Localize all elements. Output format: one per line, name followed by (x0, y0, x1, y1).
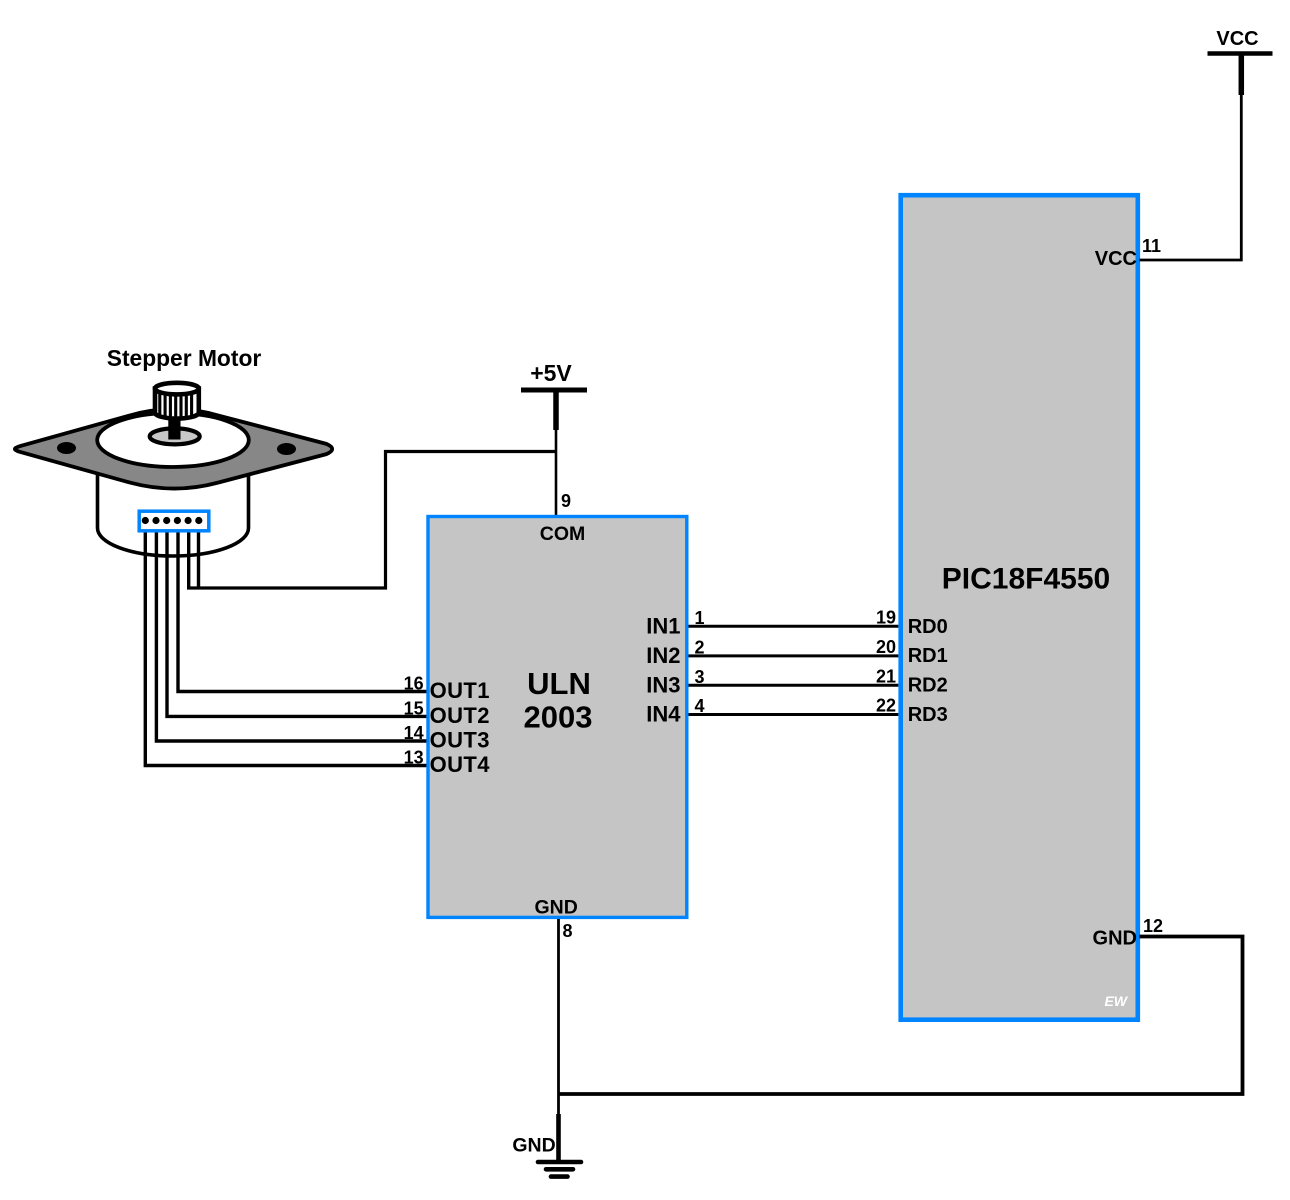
U1 pin label OUT3 (430, 728, 490, 753)
wire: motor pin5 stub (187, 521, 190, 588)
pin number 14 (404, 723, 424, 743)
svg-text:2003: 2003 (524, 700, 593, 735)
svg-text:GND: GND (512, 1134, 555, 1156)
motor hub (150, 428, 200, 444)
pin number 11 (1142, 236, 1161, 256)
svg-text:IN3: IN3 (646, 672, 680, 697)
U1 title ULN (527, 666, 591, 701)
U2 pin label RD2 (908, 675, 948, 697)
svg-text:OUT4: OUT4 (430, 752, 491, 777)
U2 pin label RD0 (908, 616, 948, 638)
wire: U1 IN2 to U2 RD1 (689, 654, 899, 657)
U1 pin label IN4 (646, 702, 681, 727)
svg-text:EW: EW (1104, 993, 1128, 1009)
svg-text:GND: GND (1093, 928, 1137, 950)
svg-text:8: 8 (563, 921, 573, 941)
wire: motor pin6 stub (197, 521, 200, 588)
U1 pin label OUT4 (430, 752, 491, 777)
wire: motor pin1 to ULN OUT4 (145, 521, 426, 766)
stepper motor M1 mounting flange (15, 409, 332, 488)
label: Stepper Motor (107, 345, 262, 371)
IC U1 ULN2003 box (428, 517, 687, 918)
connector pin dots (142, 517, 203, 524)
wire: motor pin4 to ULN OUT1 (178, 521, 427, 692)
svg-text:22: 22 (876, 696, 896, 716)
ground label GND (512, 1134, 555, 1156)
U2 pin label VCC (1095, 248, 1137, 270)
ground symbol (538, 1114, 581, 1177)
pin number 19 (876, 607, 896, 627)
svg-text:IN2: IN2 (646, 643, 680, 668)
svg-text:21: 21 (876, 666, 896, 686)
svg-text:ULN: ULN (527, 666, 591, 701)
pin number 15 (404, 698, 424, 718)
wire: VCC to U2 pin 11 (1140, 95, 1242, 260)
svg-text:19: 19 (876, 607, 896, 627)
power symbol VCC (1208, 28, 1273, 95)
U2 pin label RD1 (908, 645, 948, 667)
U1 pin label IN3 (646, 672, 680, 697)
U2 logo EW (1104, 993, 1128, 1009)
pin number 16 (404, 674, 424, 694)
svg-text:PIC18F4550: PIC18F4550 (942, 562, 1110, 595)
U2 title PIC18F4550 (942, 562, 1110, 595)
wire: U1 IN4 to U2 RD3 (689, 713, 899, 716)
svg-text:RD0: RD0 (908, 616, 948, 638)
wire: +5V to ULN COM pin 9 (555, 430, 558, 515)
svg-text:20: 20 (876, 637, 896, 657)
wire: U2 GND pin 12 return to ground (559, 937, 1243, 1095)
U1 pin label OUT1 (430, 678, 490, 703)
pin number 22 (876, 696, 896, 716)
svg-text:Stepper Motor: Stepper Motor (107, 345, 262, 371)
U2 pin label GND (1093, 928, 1137, 950)
svg-text:9: 9 (561, 491, 571, 511)
svg-text:OUT1: OUT1 (430, 678, 490, 703)
svg-text:OUT3: OUT3 (430, 728, 490, 753)
svg-text:16: 16 (404, 674, 424, 694)
pin number 20 (876, 637, 896, 657)
mounting hole left (57, 442, 76, 454)
stepper motor M1 body cylinder (98, 452, 249, 556)
svg-text:IN1: IN1 (646, 614, 680, 639)
wire: U1 IN1 to U2 RD0 (689, 625, 899, 628)
wire: motor pin2 to ULN OUT3 (156, 521, 426, 741)
svg-text:OUT2: OUT2 (430, 703, 490, 728)
svg-text:15: 15 (404, 698, 424, 718)
U1 pin label OUT2 (430, 703, 490, 728)
svg-text:COM: COM (540, 523, 586, 545)
pin number 2 (695, 638, 705, 658)
U1 title 2003 (524, 700, 593, 735)
svg-text:RD1: RD1 (908, 645, 948, 667)
pin number 21 (876, 666, 896, 686)
svg-text:13: 13 (404, 748, 424, 768)
svg-text:+5V: +5V (530, 360, 572, 386)
svg-text:3: 3 (695, 667, 705, 687)
svg-text:IN4: IN4 (646, 702, 681, 727)
svg-text:11: 11 (1142, 236, 1161, 256)
svg-text:2: 2 (695, 638, 705, 658)
U1 pin label IN1 (646, 614, 680, 639)
pin number 9 (561, 491, 571, 511)
svg-text:VCC: VCC (1216, 28, 1258, 50)
svg-text:RD3: RD3 (908, 704, 948, 726)
motor connector (139, 511, 209, 531)
power symbol +5V (521, 360, 587, 430)
wire: U1 GND pin 8 to ground (557, 919, 560, 1161)
motor shaft (168, 414, 180, 440)
motor knurled knob (155, 383, 199, 419)
wire: U1 IN3 to U2 RD2 (689, 684, 899, 687)
mounting hole right (277, 443, 296, 455)
pin number 3 (695, 667, 705, 687)
motor face ellipse (97, 413, 249, 467)
U1 pin label IN2 (646, 643, 680, 668)
IC U2 PIC18F4550 box (901, 195, 1138, 1020)
svg-text:4: 4 (695, 696, 705, 716)
svg-text:VCC: VCC (1095, 248, 1137, 270)
pin number 1 (695, 608, 705, 628)
pin number 4 (695, 696, 705, 716)
wire: motor pin3 to ULN OUT2 (167, 521, 427, 716)
svg-text:1: 1 (695, 608, 705, 628)
svg-text:GND: GND (535, 897, 578, 919)
U1 pin label GND (535, 897, 578, 919)
wire: motor common to +5V node (187, 452, 557, 589)
svg-text:14: 14 (404, 723, 424, 743)
pin number 8 (563, 921, 573, 941)
pin number 13 (404, 748, 424, 768)
svg-text:RD2: RD2 (908, 675, 948, 697)
U2 pin label RD3 (908, 704, 948, 726)
svg-text:12: 12 (1143, 916, 1163, 936)
pin number 12 (1143, 916, 1163, 936)
U1 pin label COM (540, 523, 586, 545)
